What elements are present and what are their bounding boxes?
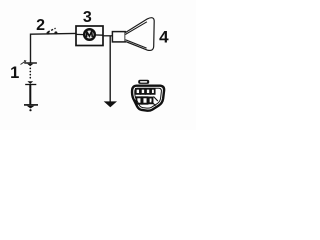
svg-text:1: 1 [10, 64, 19, 82]
connector pin cavities bottom row [136, 97, 152, 103]
svg-text:4: 4 [159, 28, 169, 47]
leader arrow 1 [21, 60, 27, 65]
ground arrow [104, 101, 117, 107]
horn 4 bell [125, 18, 154, 51]
unit box 3 [76, 26, 103, 46]
motor circle [84, 29, 95, 40]
horn switch 2 [47, 28, 58, 34]
horn 4 body [112, 32, 125, 42]
wire [31, 33, 77, 63]
connector inner outline [135, 88, 162, 108]
battery 1 [24, 63, 38, 111]
connector latch tab [138, 80, 149, 84]
connector pin cavities top row [136, 89, 155, 94]
svg-text:3: 3 [83, 9, 92, 26]
wire [76, 33, 103, 36]
connector hatch [152, 97, 158, 106]
svg-text:2: 2 [36, 17, 45, 34]
connector body outline [132, 86, 164, 111]
connector [132, 80, 164, 111]
ground wire [109, 36, 111, 102]
wire [103, 35, 113, 37]
